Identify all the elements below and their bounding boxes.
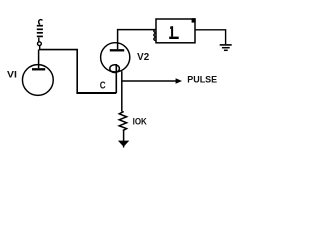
wire: box L to ground bbox=[195, 30, 225, 45]
label L bbox=[169, 26, 179, 39]
wire: resistor to supply arrow bbox=[123, 131, 125, 147]
wire: V2 plate down to resistor bbox=[121, 71, 123, 111]
svg-text:IOK: IOK bbox=[133, 117, 148, 127]
label node C bbox=[100, 80, 106, 91]
label 10K bbox=[133, 117, 148, 127]
svg-text:PULSE: PULSE bbox=[187, 73, 217, 84]
box L (shielded coil) bbox=[154, 18, 196, 43]
tube V2 envelope bbox=[101, 43, 130, 72]
resistor 10K bbox=[119, 112, 126, 131]
wire: V2 grid cap up and right to box L bbox=[118, 30, 156, 50]
svg-text:VI: VI bbox=[7, 70, 17, 80]
output arrow PULSE bbox=[122, 78, 182, 83]
label PULSE bbox=[187, 73, 217, 84]
ground bbox=[220, 45, 232, 50]
label V2 bbox=[137, 52, 149, 63]
tube V2 grid cap bar bbox=[110, 49, 124, 51]
tube V2 cathode loop bbox=[110, 65, 120, 73]
label V1 bbox=[7, 70, 17, 80]
arrow to negative supply bbox=[118, 141, 129, 148]
svg-text:C: C bbox=[100, 80, 106, 91]
tube V1 grid cap lead bbox=[32, 50, 45, 70]
inductor L1 (pickup coil, top left) bbox=[37, 20, 43, 50]
wire: coil/V1 grid junction to node C to V2 cathode bbox=[39, 50, 117, 93]
svg-text:V2: V2 bbox=[137, 52, 149, 63]
tube V1 envelope bbox=[22, 65, 53, 96]
